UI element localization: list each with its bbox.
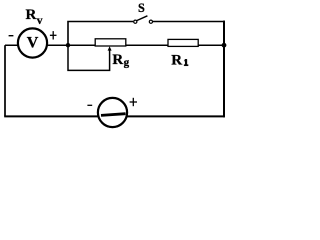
rheostat wiper arrow <box>108 46 112 50</box>
battery (DC source) circle <box>98 98 127 127</box>
battery plus sign <box>130 101 137 103</box>
wire: left vertical (voltmeter minus down to bottom rail) <box>4 45 6 116</box>
svg-text:v: v <box>37 15 43 27</box>
svg-text:S: S <box>138 1 145 15</box>
voltmeter V (internal resistance Rv) circle <box>18 28 47 57</box>
svg-text:R: R <box>112 52 123 68</box>
svg-text:R: R <box>26 7 37 23</box>
switch S contact circle left <box>134 20 137 23</box>
wire: rheostat wiper loop <box>68 45 110 70</box>
wire: top rail right segment (switch to right vertical) <box>153 21 225 23</box>
wire: right vertical <box>223 21 225 118</box>
wire: main middle rail through voltmeter and resistors <box>5 44 96 46</box>
wire: bottom rail <box>4 115 225 117</box>
svg-text:V: V <box>27 34 39 51</box>
wire: top rail left segment (to switch) <box>68 22 133 46</box>
resistor R1 body rectangle <box>168 39 198 46</box>
node B (junction dot at right rail) <box>222 43 227 48</box>
voltmeter minus sign <box>9 35 14 37</box>
svg-text:g: g <box>124 57 130 69</box>
switch S contact circle right <box>149 20 152 23</box>
node A (junction dot at voltmeter +) <box>66 43 70 47</box>
battery internal bar <box>101 114 126 116</box>
svg-text:R: R <box>171 52 182 68</box>
voltmeter plus sign <box>50 34 57 36</box>
rheostat Rg body rectangle <box>95 39 126 46</box>
switch S blade <box>137 16 148 21</box>
battery minus sign <box>87 104 92 106</box>
